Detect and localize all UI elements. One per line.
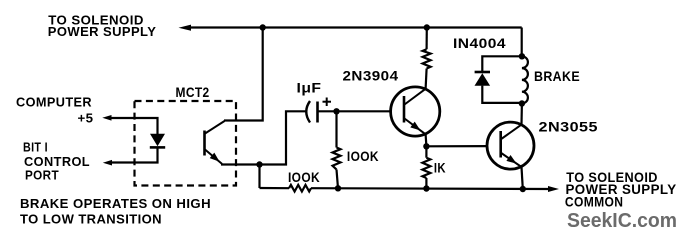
svg-text:MCT2: MCT2: [176, 85, 210, 100]
svg-text:IK: IK: [434, 160, 446, 175]
svg-text:BIT I: BIT I: [23, 140, 48, 154]
svg-text:COMMON: COMMON: [565, 195, 624, 210]
svg-text:IOOK: IOOK: [347, 149, 379, 164]
svg-text:IμF: IμF: [297, 80, 322, 95]
svg-text:2N3055: 2N3055: [539, 119, 599, 134]
svg-text:+5: +5: [78, 111, 94, 125]
svg-text:IOOK: IOOK: [288, 170, 320, 185]
svg-text:SeekIC.com: SeekIC.com: [567, 209, 677, 232]
svg-text:TO LOW TRANSITION: TO LOW TRANSITION: [20, 212, 162, 226]
svg-text:POWER SUPPLY: POWER SUPPLY: [48, 25, 157, 39]
svg-text:2N3904: 2N3904: [343, 68, 399, 83]
svg-text:CONTROL: CONTROL: [24, 155, 90, 169]
svg-text:BRAKE OPERATES ON HIGH: BRAKE OPERATES ON HIGH: [20, 197, 211, 211]
svg-text:IN4004: IN4004: [453, 36, 506, 51]
svg-text:COMPUTER: COMPUTER: [16, 95, 92, 109]
svg-text:PORT: PORT: [25, 169, 59, 183]
svg-text:BRAKE: BRAKE: [534, 69, 580, 84]
